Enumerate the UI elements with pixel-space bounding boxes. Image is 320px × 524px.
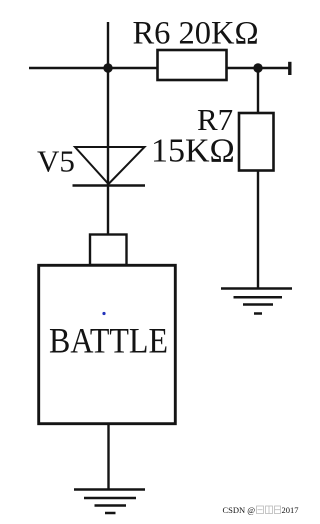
wire: R7 to ground: [257, 171, 259, 289]
svg-text:BATTLE: BATTLE: [49, 321, 168, 361]
junction node B: [253, 63, 262, 72]
wire: main vertical: [107, 22, 109, 239]
wire: top horizontal, left segment: [29, 67, 159, 69]
resistor R6: [158, 50, 227, 80]
svg-text:CSDN @: CSDN @: [223, 505, 256, 515]
junction node A: [103, 63, 112, 72]
blue dot mark: [102, 312, 105, 315]
resistor R7: [239, 113, 274, 171]
wire: top horizontal, right segment: [227, 67, 290, 69]
terminal tick at right end: [288, 62, 291, 75]
svg-text:2017: 2017: [282, 505, 299, 515]
svg-text:V5: V5: [37, 144, 75, 179]
wire: node B to R7: [257, 68, 259, 114]
diode V5: [73, 147, 146, 186]
ground (right): [221, 289, 292, 314]
battery box BATTLE: [39, 265, 176, 423]
svg-text:R6 20KΩ: R6 20KΩ: [133, 16, 259, 52]
svg-text:15KΩ: 15KΩ: [151, 133, 235, 170]
wire: battery to ground: [107, 424, 109, 490]
connector box: [90, 235, 127, 266]
ground (bottom): [74, 490, 145, 514]
